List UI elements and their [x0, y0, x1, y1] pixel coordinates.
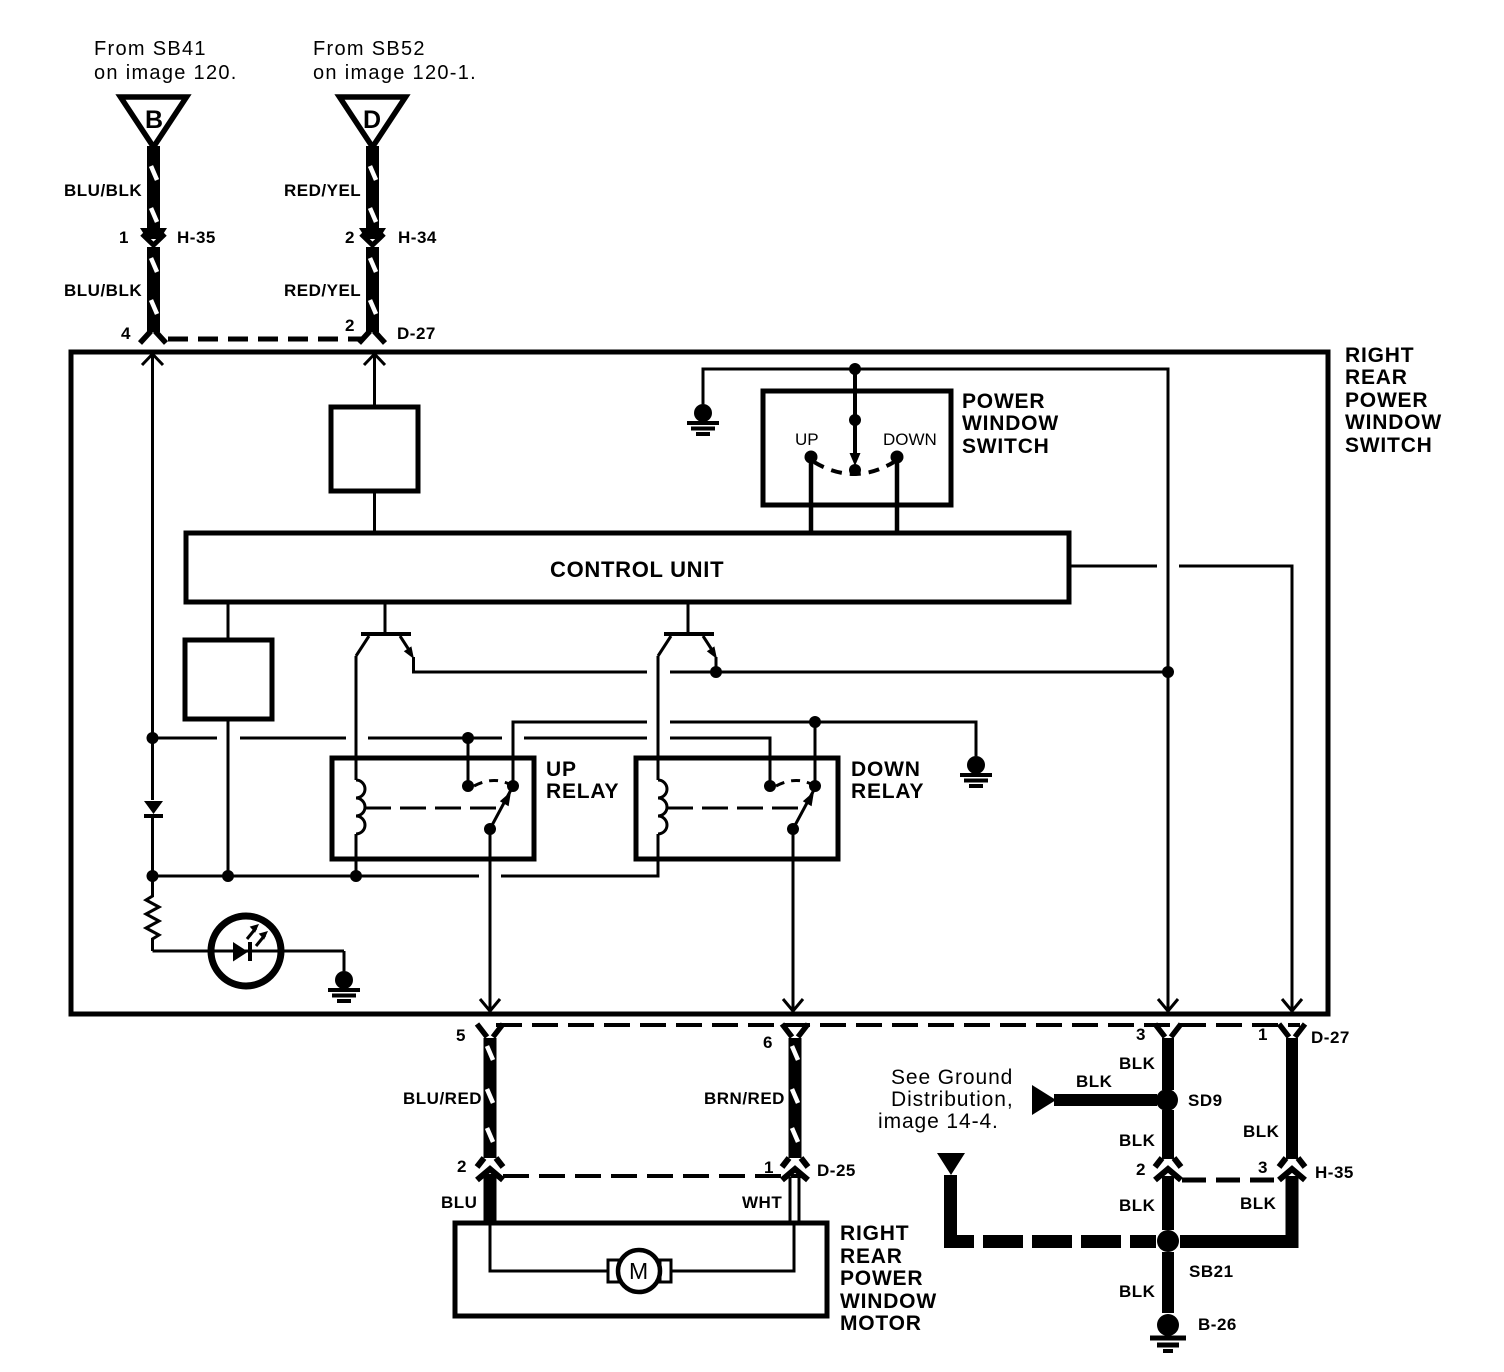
- wire UP contact to control unit: [809, 457, 814, 533]
- UP relay box: [332, 758, 619, 859]
- svg-text:See Ground: See Ground: [891, 1066, 1013, 1089]
- svg-text:D-27: D-27: [397, 324, 436, 343]
- svg-text:BLU/BLK: BLU/BLK: [64, 181, 142, 200]
- connector H-35 pin 1: [119, 228, 216, 247]
- svg-text:BLU: BLU: [441, 1193, 477, 1212]
- svg-text:SWITCH: SWITCH: [1345, 434, 1433, 457]
- wire BLK H-35 pin 3 to SB21: [1180, 1176, 1292, 1242]
- switch wiper pivot node: [849, 464, 861, 476]
- pin 6: [763, 1024, 808, 1052]
- svg-text:UP: UP: [546, 758, 577, 781]
- svg-text:CONTROL UNIT: CONTROL UNIT: [550, 557, 724, 582]
- svg-text:2: 2: [1136, 1160, 1146, 1179]
- svg-text:BLK: BLK: [1119, 1054, 1156, 1073]
- svg-text:WINDOW: WINDOW: [1345, 411, 1442, 434]
- wire BLU/BLK from H-35 to pin 4: [64, 247, 157, 332]
- svg-text:D: D: [363, 106, 381, 134]
- resistor R on LED branch: [146, 876, 159, 951]
- pin 5: [456, 1024, 503, 1045]
- power window switch box: [763, 391, 951, 505]
- transistor Q2 collector wire to junction: [715, 657, 718, 672]
- switch DOWN contact: [883, 430, 937, 464]
- dashed BLK wire to SB21: [951, 1225, 1157, 1242]
- svg-text:REAR: REAR: [1345, 366, 1408, 389]
- svg-text:MOTOR: MOTOR: [840, 1312, 922, 1335]
- label RIGHT REAR POWER WINDOW MOTOR: [840, 1222, 937, 1335]
- svg-text:H-34: H-34: [398, 228, 437, 247]
- svg-text:BRN/RED: BRN/RED: [704, 1089, 785, 1108]
- wire top feed with ground, to power window switch and right bus: [703, 363, 1168, 672]
- transistor Q2 emitter wire to DOWN relay coil: [657, 656, 660, 760]
- svg-text:D-25: D-25: [817, 1161, 856, 1180]
- DOWN relay contacts and blade: [764, 780, 821, 835]
- wire RED/YEL from D to H-34: [284, 146, 376, 228]
- DOWN relay coil: [501, 758, 667, 876]
- wire control unit to lower component block: [227, 602, 230, 640]
- wire from pin 2 D-27 into component block: [364, 354, 385, 407]
- pin 2 D-27 of right rear power window switch: [345, 316, 436, 343]
- label RIGHT REAR POWER WINDOW SWITCH: [1345, 344, 1442, 457]
- wire DOWN contact to control unit: [895, 457, 900, 533]
- svg-text:POWER: POWER: [840, 1267, 923, 1290]
- wire BLU/BLK from B to H-35: [64, 146, 157, 228]
- ground distribution feed arrow and BLK wire: [1032, 1072, 1157, 1115]
- ground at relay feed: [960, 756, 992, 786]
- connector triangle D (from SB52): [340, 97, 406, 147]
- svg-text:SB21: SB21: [1189, 1262, 1234, 1281]
- wire BLK SB21 to B-26: [1119, 1252, 1168, 1313]
- note: From SB41 on image 120.: [94, 38, 238, 84]
- svg-text:REAR: REAR: [840, 1245, 903, 1268]
- svg-text:UP: UP: [795, 430, 819, 449]
- control unit right output to D-27 pin 1: [1069, 566, 1302, 1011]
- svg-text:WHT: WHT: [742, 1193, 782, 1212]
- label POWER WINDOW SWITCH: [962, 390, 1059, 458]
- svg-text:1: 1: [1258, 1025, 1268, 1044]
- svg-text:From SB41: From SB41: [94, 38, 207, 60]
- svg-text:BLK: BLK: [1243, 1122, 1280, 1141]
- dashed row between H-35 pins: [1182, 1178, 1278, 1183]
- svg-text:WINDOW: WINDOW: [840, 1290, 937, 1313]
- ground at top feed: [687, 404, 719, 434]
- UP relay contacts and blade: [462, 780, 519, 835]
- wire BLK D-27 pin 1 to H-35 pin 3: [1243, 1038, 1292, 1159]
- DOWN relay output wire to pin 6: [783, 829, 803, 1011]
- pin 3: [1136, 1024, 1181, 1044]
- svg-text:DOWN: DOWN: [883, 430, 937, 449]
- LED indicator: [211, 916, 281, 986]
- wire BRN/RED pin 6 to pin 1 D-25: [704, 1038, 798, 1158]
- splice SD9: [1156, 1089, 1223, 1111]
- svg-text:RED/YEL: RED/YEL: [284, 281, 361, 300]
- svg-text:POWER: POWER: [962, 390, 1045, 413]
- svg-text:RIGHT: RIGHT: [840, 1222, 909, 1245]
- svg-text:RELAY: RELAY: [851, 780, 924, 803]
- svg-text:2: 2: [345, 316, 355, 335]
- wire lower component block to bus junction: [227, 719, 230, 876]
- svg-text:B: B: [145, 106, 163, 134]
- UP relay coil: [356, 758, 365, 876]
- svg-text:BLK: BLK: [1119, 1282, 1156, 1301]
- svg-text:BLK: BLK: [1119, 1131, 1156, 1150]
- lower component block: [185, 640, 272, 719]
- svg-text:H-35: H-35: [177, 228, 216, 247]
- wire RED/YEL from H-34 to pin 2 D-27: [284, 247, 376, 332]
- dashed wiper travel arc: [814, 462, 894, 474]
- pin 1 D-25 connector: [764, 1158, 856, 1180]
- svg-text:BLU/RED: BLU/RED: [403, 1089, 482, 1108]
- wire BLU to motor: [441, 1174, 490, 1223]
- svg-text:2: 2: [457, 1157, 467, 1176]
- dashed connector row below box: [496, 1023, 1300, 1027]
- wire BLK SD9 to H-35 pin 2: [1119, 1110, 1168, 1159]
- pin 4 of right rear power window switch: [121, 324, 166, 343]
- splice SB21: [1157, 1230, 1234, 1281]
- bus wire under relays: [147, 870, 480, 882]
- switch common feed wire with junction and arrow wiper: [849, 369, 861, 466]
- DOWN relay actuation dashed link: [667, 807, 807, 810]
- motor internal wiring: [490, 1225, 794, 1271]
- svg-text:B-26: B-26: [1198, 1315, 1237, 1334]
- svg-text:WINDOW: WINDOW: [962, 412, 1059, 435]
- dashed row between pin 2 and pin 1 D-25: [503, 1174, 805, 1178]
- svg-text:SD9: SD9: [1188, 1091, 1223, 1110]
- motor M: [608, 1250, 671, 1292]
- diode on left vertical wire: [144, 801, 163, 876]
- svg-text:image 14-4.: image 14-4.: [878, 1110, 999, 1133]
- svg-text:BLK: BLK: [1240, 1194, 1277, 1213]
- wire BLK pin 3 to SD9: [1119, 1038, 1168, 1090]
- svg-text:1: 1: [764, 1158, 774, 1177]
- svg-text:SWITCH: SWITCH: [962, 435, 1050, 458]
- wire junction to UP relay left contact: [467, 738, 470, 781]
- connector H-35 pin 2: [1136, 1158, 1181, 1180]
- note: From SB52 on image 120-1.: [313, 38, 477, 84]
- ground at LED: [328, 971, 360, 1001]
- pin 2 connector to motor: [457, 1157, 503, 1180]
- svg-text:RIGHT: RIGHT: [1345, 344, 1414, 367]
- switch UP contact: [795, 430, 819, 464]
- triangle connector to ground distribution: [937, 1153, 965, 1237]
- wire BLU/RED pin 5 to pin 2: [403, 1038, 493, 1158]
- wire LED to ground: [343, 951, 346, 971]
- left bus wire to relay left contacts: [147, 732, 771, 781]
- connector H-34 pin 2: [345, 228, 437, 247]
- svg-text:3: 3: [1136, 1025, 1146, 1044]
- svg-text:5: 5: [456, 1026, 466, 1045]
- wire DOWN relay right contact to feed: [814, 722, 817, 781]
- component block above control unit: [331, 407, 418, 491]
- svg-text:BLU/BLK: BLU/BLK: [64, 281, 142, 300]
- svg-text:on image 120.: on image 120.: [94, 62, 238, 84]
- transistor Q2: [658, 602, 717, 659]
- note: See Ground Distribution, image 14-4.: [878, 1066, 1014, 1133]
- wire WHT to motor: [742, 1177, 799, 1223]
- right rear power window switch enclosure box: [71, 352, 1328, 1014]
- dashed connector row between pin 4 and pin 2: [168, 337, 362, 342]
- UP relay output wire to pin 5: [480, 829, 500, 1011]
- wire from pin 4 down left side of box: [142, 354, 163, 800]
- svg-text:2: 2: [345, 228, 355, 247]
- wire BLK H-35 pin 2 to SB21: [1119, 1176, 1168, 1230]
- control unit box: [186, 533, 1069, 602]
- transistor Q1 collector wire to right bus: [414, 657, 1175, 678]
- svg-text:4: 4: [121, 324, 131, 343]
- ground B-26: [1150, 1314, 1237, 1351]
- svg-text:D-27: D-27: [1311, 1028, 1350, 1047]
- svg-text:RELAY: RELAY: [546, 780, 619, 803]
- svg-text:BLK: BLK: [1076, 1072, 1113, 1091]
- right bus wire down to pin 3: [1158, 672, 1178, 1011]
- svg-text:on image 120-1.: on image 120-1.: [313, 62, 477, 84]
- wire resistor to LED: [153, 950, 345, 953]
- svg-text:BLK: BLK: [1119, 1196, 1156, 1215]
- connector H-35 pin 3: [1258, 1158, 1354, 1182]
- relay feed wire from UP relay right contact with ground branch: [513, 716, 976, 781]
- svg-text:3: 3: [1258, 1158, 1268, 1177]
- UP relay actuation dashed link: [365, 807, 505, 810]
- svg-text:POWER: POWER: [1345, 389, 1428, 412]
- connector triangle B (from SB41): [121, 97, 187, 147]
- svg-text:From SB52: From SB52: [313, 38, 426, 60]
- transistor Q1 emitter wire to UP relay coil: [355, 656, 358, 760]
- svg-text:RED/YEL: RED/YEL: [284, 181, 361, 200]
- right rear power window motor box: [455, 1223, 827, 1316]
- pin 1 D-27: [1258, 1024, 1350, 1047]
- DOWN relay box: [636, 758, 924, 859]
- transistor Q1: [356, 602, 414, 659]
- svg-text:H-35: H-35: [1315, 1163, 1354, 1182]
- svg-text:Distribution,: Distribution,: [891, 1088, 1014, 1111]
- svg-text:DOWN: DOWN: [851, 758, 921, 781]
- svg-text:6: 6: [763, 1033, 773, 1052]
- svg-text:1: 1: [119, 228, 129, 247]
- wire from component block to control unit: [373, 491, 376, 533]
- svg-text:M: M: [629, 1258, 648, 1284]
